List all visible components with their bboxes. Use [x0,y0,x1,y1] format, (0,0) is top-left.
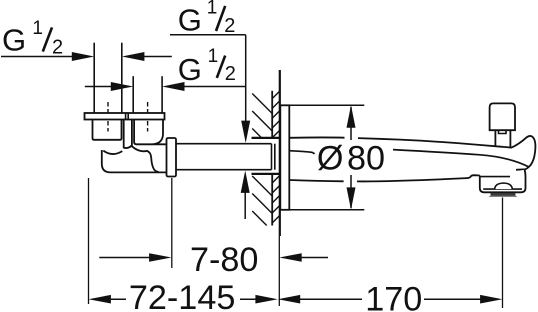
leader line G1/2 top-left [1,56,74,58]
O80 dimension line upper [350,107,352,140]
72-145 dimension line [108,298,126,300]
flange divider [125,113,127,120]
arrowhead up at flange top [347,105,356,127]
72-145 right arrowhead [255,295,277,304]
leader underline G1/2 top-center [170,34,246,36]
extension line flange bottom (O80) [289,209,364,211]
svg-text:1: 1 [208,46,219,67]
extension line left (fitting) [88,178,90,304]
centerline dashes pipe 2 [147,102,149,132]
aerator washer [489,196,517,197]
O80 dimension line lower [350,175,352,208]
tube end fitting verticals [271,144,273,170]
middle column [124,120,132,148]
extension line flange top (O80) [289,104,364,106]
wall hatch lower ticks [272,175,280,223]
svg-text:2: 2 [224,15,235,37]
scallop under right body and S-bend [132,146,159,172]
arrowhead left at pipe2 right [162,82,184,91]
extension line aerator center [502,198,504,309]
svg-text:2: 2 [225,63,236,85]
spout bottom silhouette [289,175,480,181]
aerator slot [491,193,516,196]
tube to wall bottom [176,169,272,171]
slash of G1/2 top-center [216,6,225,31]
svg-text:1: 1 [32,18,43,39]
spout top silhouette [289,136,535,170]
wall face extension line to bottom dimension [278,236,280,306]
svg-text:1: 1 [207,0,218,19]
arrowhead right at pipe2 left + tail [111,82,133,91]
aerator dome [495,183,513,189]
tube to wall top [176,143,272,145]
7-80 dimension left arrow [99,257,150,259]
slash of G1/2 middle [217,56,225,78]
svg-text:G: G [178,3,202,38]
svg-text:G: G [178,52,202,87]
svg-text:80: 80 [347,140,385,178]
inlet pipe 1 [93,43,95,113]
170 left arrowhead [278,295,300,304]
label G1/2 top-left [2,18,63,59]
170 right arrowhead [480,295,502,304]
label O 80 [317,140,385,178]
aerator housing top edge [481,176,511,178]
spout shoulder line at root [289,151,314,154]
wall hub lower line [252,173,280,175]
arrowhead right at pipe1 left [72,52,94,61]
wall hub upper line [252,137,280,139]
extension line nut right [171,178,173,268]
wall face line [279,70,281,236]
knob stem [495,130,510,148]
svg-text:G: G [2,23,26,58]
union nut [167,138,177,177]
scallop under left body [103,151,122,154]
leader vertical G1/2 top-center [245,35,247,128]
aerator inner line [483,188,522,190]
leader underline G1/2 middle [184,86,246,88]
wall back line upper [271,91,273,138]
arrowhead left at pipe1 right + tail [122,52,144,61]
union body left [93,120,122,140]
72-145 left arrowhead [89,295,111,304]
7-80 dimension right arrow [279,253,301,262]
wall hatch upper long strokes [252,94,272,139]
inlet pipe 2 [132,76,134,113]
stem notch [499,130,507,133]
wall hatch lower long strokes [252,176,272,226]
wall back line lower [271,174,273,226]
svg-text:72-145: 72-145 [129,279,235,312]
svg-text:2: 2 [52,36,63,58]
escutcheon flange plate [85,113,165,120]
slash of G1/2 top-left [43,27,52,51]
diverter knob [490,103,515,130]
arrowhead down at flange bottom [347,187,356,209]
arrowhead up at tube bottom + tail [241,171,250,193]
elbow body [102,150,167,172]
aerator housing [480,170,526,192]
spout near top edge [393,150,529,167]
svg-text:7-80: 7-80 [190,241,258,279]
170 dimension line [299,298,362,300]
spout wall flange [280,105,289,210]
wall hatch upper ticks [272,91,280,138]
arrowhead down at tube top [241,121,250,143]
label G1/2 top-center [178,0,236,38]
label G1/2 middle [178,46,236,87]
union body right [134,120,166,145]
centerline dashes pipe 1 [107,102,109,132]
svg-text:170: 170 [365,281,422,312]
svg-text:Ø: Ø [317,140,344,178]
